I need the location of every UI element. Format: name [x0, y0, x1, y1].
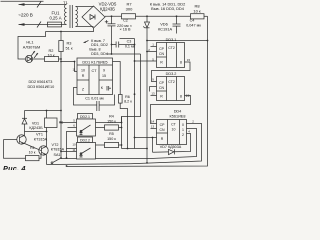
svg-text:15: 15	[186, 94, 190, 98]
svg-text:Рис. 4: Рис. 4	[3, 164, 26, 170]
svg-text:CP: CP	[159, 47, 165, 51]
svg-text:10: 10	[72, 143, 76, 147]
svg-text:VT1: VT1	[36, 133, 43, 137]
svg-text:КТ315А: КТ315А	[34, 138, 48, 142]
svg-text:DD1, DD2: DD1, DD2	[91, 43, 108, 47]
svg-text:8: 8	[180, 95, 182, 99]
svg-text:CN: CN	[159, 52, 165, 56]
svg-text:КД243Б: КД243Б	[100, 7, 115, 12]
svg-text:10: 10	[81, 69, 85, 73]
svg-text:150 к: 150 к	[107, 137, 116, 141]
svg-text:С1 0,01 мк: С1 0,01 мк	[85, 96, 104, 100]
svg-text:300: 300	[126, 7, 133, 12]
svg-text:0: 0	[182, 123, 184, 127]
svg-text:10: 10	[172, 128, 176, 132]
svg-text:CT2: CT2	[168, 46, 175, 50]
svg-text:КТ815А: КТ815А	[51, 148, 65, 152]
svg-text:× 16 В: × 16 В	[119, 28, 131, 32]
svg-text:R: R	[82, 74, 85, 78]
svg-text:11: 11	[72, 148, 75, 152]
svg-text:DD4: DD4	[174, 110, 182, 114]
svg-text:CN: CN	[159, 128, 165, 132]
svg-text:CN: CN	[159, 86, 165, 90]
svg-text:DD3.2: DD3.2	[166, 72, 177, 76]
svg-text:10 к: 10 к	[47, 53, 54, 58]
svg-text:13: 13	[151, 92, 155, 96]
svg-text:R6: R6	[125, 95, 130, 99]
svg-text:R5: R5	[109, 132, 114, 136]
svg-text:Выв. 16 DD3, DD4: Выв. 16 DD3, DD4	[151, 6, 185, 11]
svg-text:DD2 К561КТ3: DD2 К561КТ3	[29, 80, 53, 84]
svg-text:КС191А: КС191А	[158, 27, 173, 32]
svg-text:DD2.1: DD2.1	[80, 115, 90, 119]
svg-text:13: 13	[151, 125, 155, 129]
svg-text:15: 15	[102, 74, 106, 78]
svg-text:9: 9	[103, 69, 105, 73]
svg-text:10 к: 10 к	[193, 9, 201, 14]
svg-text:11: 11	[72, 68, 75, 72]
svg-text:SA1: SA1	[54, 153, 61, 157]
svg-text:С3: С3	[127, 40, 132, 44]
svg-text:14: 14	[151, 120, 155, 124]
svg-text:DD3 К561ИЕ10: DD3 К561ИЕ10	[28, 85, 55, 89]
svg-text:С4: С4	[190, 19, 195, 23]
svg-text:1: 1	[182, 128, 184, 132]
svg-text:CP: CP	[160, 123, 166, 127]
svg-text:150 к: 150 к	[107, 120, 116, 124]
svg-text:КД243Б: КД243Б	[29, 126, 43, 130]
svg-text:DD1 К176ИЕ5: DD1 К176ИЕ5	[82, 60, 107, 65]
svg-text:CT2: CT2	[168, 80, 175, 84]
svg-text:CP: CP	[159, 81, 165, 85]
svg-text:VD1: VD1	[32, 121, 39, 125]
svg-text:R4: R4	[109, 115, 114, 119]
svg-text:8: 8	[180, 61, 182, 65]
svg-text:2: 2	[182, 133, 184, 137]
svg-text:R1: R1	[30, 146, 35, 150]
svg-text:С2: С2	[123, 19, 128, 23]
svg-text:VD7 КД503А: VD7 КД503А	[160, 145, 182, 149]
svg-text:CT: CT	[91, 69, 97, 73]
svg-text:0,25 А: 0,25 А	[49, 16, 61, 21]
svg-text:АЛ307БМ: АЛ307БМ	[23, 44, 41, 49]
svg-text:~220 В: ~220 В	[18, 13, 33, 18]
svg-text:DD3.1: DD3.1	[166, 38, 177, 42]
svg-text:Т1: Т1	[63, 0, 68, 5]
svg-text:51 к: 51 к	[65, 46, 72, 51]
svg-text:0,047 мк: 0,047 мк	[186, 24, 201, 28]
svg-text:К561ИЕ8: К561ИЕ8	[170, 115, 186, 119]
svg-text:VT2: VT2	[52, 143, 59, 147]
svg-text:10 к: 10 к	[29, 151, 36, 155]
svg-text:8,2 к: 8,2 к	[124, 99, 132, 103]
svg-text:DD3, DD4: DD3, DD4	[91, 52, 108, 56]
svg-text:DD2.2: DD2.2	[80, 138, 90, 142]
svg-text:15: 15	[187, 58, 191, 62]
